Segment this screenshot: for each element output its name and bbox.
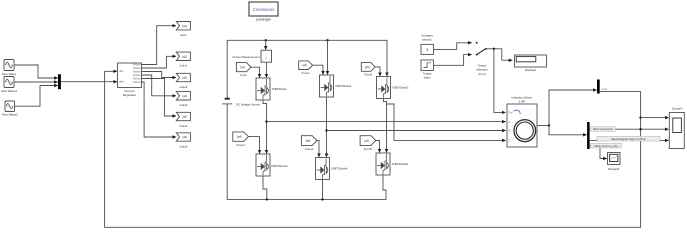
wire IGBT/Diode4 emitter to bottom rail [322,180,324,200]
wire leg1 midpoint: IGBT/Diode emitter down to IGBT/Diode3 collector [263,100,267,153]
svg-text:step1: step1 [424,76,431,80]
from tag From [g1] [236,63,251,78]
svg-text:[g6]: [g6] [182,135,187,139]
bus selector bar [587,122,590,149]
svg-text:[g3]: [g3] [302,63,307,67]
svg-text:Pulses: Pulses [133,81,141,84]
svg-text:[g1]: [g1] [182,24,187,28]
svg-text:Goto5: Goto5 [179,144,187,148]
wire torque branch to motor Tm input [494,49,505,113]
svg-text:[g3]: [g3] [182,76,187,80]
svg-text:Display2: Display2 [525,68,536,72]
svg-text:Tm: Tm [508,111,513,115]
wire Electromagnetic torque to Scope4 input 3 [590,139,669,141]
wire Pulses3 to Goto2 [142,72,176,78]
svg-text:<Stator current is_a (A)>: <Stator current is_a (A)> [593,145,619,148]
svg-text:Goto1: Goto1 [179,64,187,68]
svg-text:Continuous: Continuous [253,7,275,12]
manual switch Torque selection [476,42,487,56]
svg-text:IGBT/Diode: IGBT/Diode [272,87,287,91]
wire motor output up to speed mux [549,90,597,126]
wire top rail to Current Measurement [265,40,267,49]
svg-text:Goto4: Goto4 [179,124,187,128]
node phase A tap [265,120,267,122]
svg-text:Scope14: Scope14 [608,167,620,171]
goto tag Goto2 [g3] [176,73,190,89]
wire Sine Wave1 to Mux [14,81,58,83]
mux Mux [58,74,61,89]
signal label Stator current is_a (A) [591,143,622,148]
svg-text:Sine Wave: Sine Wave [2,72,17,76]
svg-text:[g2]: [g2] [364,139,369,143]
node on top rail feeding IGBT/Diode1 collector [326,39,328,41]
mux speed selector bar [597,80,600,94]
powergui block [249,2,278,21]
current sensor Current Measurement [261,50,272,62]
svg-text:IGBT/Diode5: IGBT/Diode5 [392,162,409,166]
subsystem Current Regulator [118,63,142,97]
svg-text:Goto: Goto [180,33,187,37]
svg-text:abc*: abc* [119,80,124,84]
wire Pulses2 to Goto1 [142,56,176,68]
wire leg2 midpoint: IGBT/Diode1 emitter down to IGBT/Diode4 collector [326,97,328,157]
svg-text:DC Voltage Source: DC Voltage Source [236,102,260,106]
wire From5 [g2] to IGBT/Diode5 gate [376,141,380,153]
node motor output branch [548,124,550,126]
node on top rail feeding Current Measurement [265,39,267,41]
svg-text:abc: abc [119,69,124,73]
svg-text:m: m [534,125,536,128]
wire phase B to motor [327,130,506,132]
wire top rail to IGBT/Diode1 collector [327,40,329,74]
from tag From5 [g2] [360,136,376,151]
svg-text:<Rotor speed (wm)>: <Rotor speed (wm)> [593,128,615,131]
transistor block IGBT/Diode5 [376,153,390,175]
DC bus: left vertical, top rail, drop to IGBT/Diode2 collector [227,40,387,98]
svg-text:From5: From5 [364,147,373,151]
from tag From3 [g4] [233,132,249,147]
wire From4 [g6] to IGBT/Diode4 gate [317,141,319,157]
svg-text:[g1]: [g1] [240,65,245,69]
svg-text:Goto2: Goto2 [179,85,187,89]
svg-text:[g4]: [g4] [237,135,242,139]
sine wave source Sine Wave2 [2,101,18,117]
svg-text:powergui: powergui [256,17,270,21]
wire motor m output to junction [537,125,549,127]
transistor block IGBT/Diode3 [256,154,270,176]
sine wave source Sine Wave1 [1,77,17,94]
svg-text:C: C [509,140,511,143]
svg-text:From3: From3 [237,143,246,147]
sine wave source Sine Wave [2,60,17,77]
transistor block IGBT/Diode4 [316,158,330,180]
wire Pulses5 to Goto4 [142,79,176,117]
svg-text:Scope4: Scope4 [672,106,682,110]
svg-text:Current Measurement: Current Measurement [232,55,259,59]
wire Stator current to Scope14 [590,146,607,159]
goto tag Goto3 [g4] [176,92,190,108]
svg-text:wd dt: wd dt [602,88,608,91]
signal label Rotor speed (wm) [591,127,616,132]
svg-text:From2: From2 [364,73,373,77]
svg-text:torque1: torque1 [422,37,432,41]
goto tag Goto5 [g6] [176,133,190,149]
node leg2 on bottom rail [321,198,323,200]
svg-text:1 HP: 1 HP [518,100,525,104]
wire current feedback: from bus vertical, bottom run, up to Current Regulator abc input [105,71,641,227]
node phase B tap [325,129,327,131]
wire Pulses4 to Goto3 [142,75,176,96]
wire leg3 midpoint: IGBT/Diode2 emitter down to IGBT/Diode5 collector [384,99,387,153]
transistor block IGBT/Diode [256,78,270,100]
svg-text:From: From [240,73,247,77]
svg-text:IGBT/Diode3: IGBT/Diode3 [271,164,288,168]
svg-text:Sine Wave2: Sine Wave2 [2,113,18,117]
DC voltage source V1 plates [225,98,230,100]
wire Rotor speed to Scope4 input 2 [590,128,669,130]
svg-text:Goto3: Goto3 [179,103,187,107]
wire Pulses1 to Goto [142,26,176,65]
svg-text:IGBT/Diode1: IGBT/Diode1 [335,84,352,88]
svg-text:From4: From4 [305,147,314,151]
node scope feed 1 [639,116,641,118]
wire Sine Wave2 to Mux [15,86,58,107]
svg-text:<Electromagnetic torque Te (N*: <Electromagnetic torque Te (N*m)> [611,138,648,141]
transistor block IGBT/Diode1 [320,75,334,97]
step source Torque step1 [421,60,434,71]
svg-text:[g2]: [g2] [182,54,187,58]
svg-text:[g5]: [g5] [182,115,187,119]
goto tag Goto4 [g5] [176,112,190,128]
goto tag Goto [g1] [176,22,190,38]
svg-text:From1: From1 [302,71,311,75]
motor block Induction Motor 1 HP [507,104,537,147]
wire From3 [g4] to IGBT/Diode3 gate [249,137,260,154]
scope block Scope14 [608,153,621,172]
svg-text:(N.m): (N.m) [478,72,485,76]
wire phase A to motor [267,121,506,123]
wire Current Measurement to IGBT/Diode collector [265,62,267,77]
transistor block IGBT/Diode2 [377,77,391,99]
DC bus negative: left vertical, bottom rail, rise to IGBT/Diode5 emitter [227,104,386,199]
svg-text:[g5]: [g5] [365,65,370,69]
wire Mux to Current Regulator abc* input [61,81,117,83]
signal label Electromagnetic torque Te (N*m) [597,136,660,141]
wire From2 [g5] to IGBT/Diode2 gate [375,67,380,76]
wire Constant torque1 to Manual Switch input 1 [434,43,472,50]
wire to Scope4 input 1 [641,117,669,119]
wire From1 [g3] to IGBT/Diode1 gate [313,65,323,74]
svg-text:Sine Wave1: Sine Wave1 [1,89,17,93]
node leg1 on bottom rail [266,198,268,200]
svg-text:3: 3 [426,48,428,52]
display block Display2 [515,55,547,72]
from tag From1 [g3] [299,61,313,75]
from tag From4 [g6] [301,136,317,151]
from tag From2 [g5] [361,63,375,77]
wire IGBT/Diode3 emitter to bottom rail [263,176,267,199]
wire Torque step1 to Manual Switch input 2 [434,55,472,66]
wire From [g1] to IGBT/Diode gate [251,67,260,77]
svg-text:Regulator: Regulator [123,93,136,97]
node torque branch [493,48,495,50]
node scope feed 2 [639,128,641,130]
wire phase C jog and line to motor [387,104,506,140]
svg-text:IGBT/Diode4: IGBT/Diode4 [331,167,348,171]
wire Manual Switch to Display2 [486,49,512,60]
wire Pulses6 to Goto5 [142,82,176,137]
svg-text:[g6]: [g6] [306,139,311,143]
constant block Constant torque1 [421,44,434,54]
scope block Scope4 [669,113,684,149]
goto tag Goto1 [g2] [176,52,190,68]
svg-text:[g4]: [g4] [182,94,187,98]
wire motor output down to Bus Selector [549,126,587,135]
wire Sine Wave to Mux [14,65,58,78]
svg-text:IGBT/Diode2: IGBT/Diode2 [392,86,409,90]
